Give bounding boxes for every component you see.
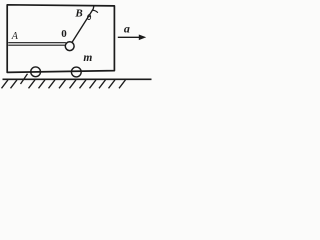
svg-text:m: m — [83, 52, 92, 64]
svg-text:B: B — [74, 7, 82, 19]
svg-text:0: 0 — [61, 28, 67, 40]
svg-text:a: a — [124, 21, 130, 35]
svg-text:A: A — [11, 31, 19, 42]
